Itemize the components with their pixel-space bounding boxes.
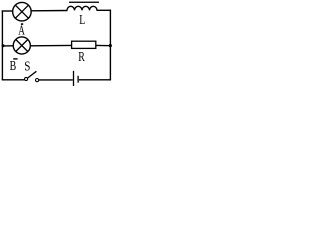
wire right vertical (109, 10, 111, 81)
svg-text:B: B (10, 58, 17, 73)
switch S lever (28, 71, 37, 78)
wire left vertical (1, 10, 3, 80)
svg-text:S: S (24, 58, 30, 73)
wire switch to battery (39, 79, 73, 81)
svg-text:R: R (78, 49, 85, 64)
switch S fixed contact (36, 79, 39, 82)
lamp B cross (16, 40, 28, 52)
wire bottom-left to switch (2, 79, 25, 81)
svg-text:L: L (79, 12, 85, 27)
dash above label B (13, 58, 17, 59)
inductor L coil (67, 6, 97, 10)
battery long plate (73, 71, 75, 87)
wire lamp B to resistor R (31, 44, 72, 46)
wire resistor to right junction (96, 44, 111, 46)
node right junction dot (109, 44, 112, 47)
wire lamp A to inductor (31, 10, 67, 12)
lamp B circle (13, 37, 30, 54)
wire top-left to lamp A (2, 10, 13, 12)
label A apex tick (21, 23, 23, 25)
battery short plate (77, 76, 79, 83)
wire junction to lamp B (2, 45, 13, 47)
resistor R body (72, 41, 96, 48)
switch S pivot contact (25, 77, 28, 80)
wire battery to bottom-right corner (79, 79, 111, 81)
svg-text:A: A (18, 22, 25, 37)
background (0, 0, 115, 86)
lamp A cross (15, 5, 28, 18)
inductor L core line (69, 2, 99, 3)
wire inductor to right corner (97, 9, 112, 11)
node left junction dot (2, 44, 5, 47)
lamp A circle (13, 2, 32, 21)
